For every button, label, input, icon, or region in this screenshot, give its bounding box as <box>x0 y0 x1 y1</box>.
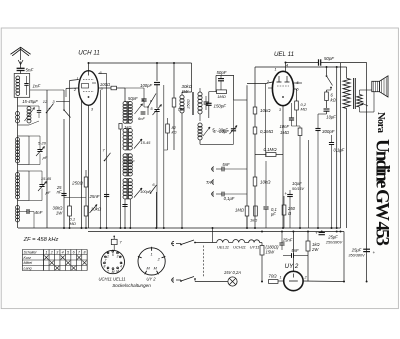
svg-text:UY11: UY11 <box>250 245 260 250</box>
svg-text:M: M <box>116 269 119 273</box>
svg-text:+: + <box>373 250 376 255</box>
svg-text:5 - 20μF: 5 - 20μF <box>213 129 229 134</box>
svg-text:3: 3 <box>117 254 119 258</box>
svg-text:3: 3 <box>56 251 58 255</box>
svg-text:1MΩ: 1MΩ <box>280 130 290 135</box>
svg-text:MΩ: MΩ <box>70 221 76 226</box>
svg-text:2: 2 <box>106 269 109 273</box>
svg-text:100Ω: 100Ω <box>100 82 111 87</box>
svg-text:1MΩ: 1MΩ <box>217 94 226 99</box>
svg-text:TA: TA <box>206 180 212 185</box>
svg-text:5-20: 5-20 <box>38 141 47 146</box>
svg-text:5: 5 <box>112 253 114 257</box>
svg-text:+: + <box>284 191 287 196</box>
svg-text:pF: pF <box>45 190 51 195</box>
svg-text:1: 1 <box>107 254 109 258</box>
svg-text:UY 2: UY 2 <box>146 277 156 282</box>
svg-text:MΩ: MΩ <box>301 107 307 112</box>
svg-text:1W: 1W <box>56 211 63 216</box>
svg-text:Mittel: Mittel <box>24 261 33 265</box>
svg-text:kΩ: kΩ <box>331 98 337 103</box>
svg-text:1nF: 1nF <box>33 83 41 88</box>
svg-text:kΩ: kΩ <box>172 130 177 135</box>
svg-text:Nora: Nora <box>375 112 386 134</box>
svg-text:70Ω: 70Ω <box>268 274 277 279</box>
svg-text:50pF: 50pF <box>216 70 226 75</box>
svg-text:25μF: 25μF <box>327 235 338 240</box>
svg-text:10nF: 10nF <box>279 124 289 129</box>
svg-text:100pF: 100pF <box>123 159 135 164</box>
svg-text:4: 4 <box>120 264 122 268</box>
svg-text:5nF: 5nF <box>291 248 299 253</box>
svg-text:15W: 15W <box>266 250 276 255</box>
svg-text:25nF: 25nF <box>282 238 293 243</box>
svg-text:300pF: 300pF <box>322 129 335 134</box>
svg-text:7: 7 <box>105 258 107 262</box>
svg-text:Sockelschaltungen: Sockelschaltungen <box>112 283 151 288</box>
svg-text:M: M <box>112 270 115 274</box>
svg-text:15-45: 15-45 <box>41 176 52 181</box>
svg-text:Lang: Lang <box>24 266 32 270</box>
svg-text:ZF = 458 kHz: ZF = 458 kHz <box>23 237 59 243</box>
svg-text:2W: 2W <box>311 247 319 252</box>
svg-text:4: 4 <box>62 251 64 255</box>
svg-text:10μF: 10μF <box>292 181 302 186</box>
svg-text:5nF: 5nF <box>222 162 230 167</box>
svg-text:UEL 11: UEL 11 <box>274 51 294 58</box>
svg-text:1: 1 <box>45 251 47 255</box>
svg-text:0,1μF: 0,1μF <box>334 148 345 153</box>
svg-text:15-45μF: 15-45μF <box>22 99 38 104</box>
svg-text:6: 6 <box>73 251 75 255</box>
svg-text:10kΩ: 10kΩ <box>260 180 271 185</box>
svg-text:Undine GW 453: Undine GW 453 <box>372 139 393 246</box>
svg-text:1kΩ: 1kΩ <box>250 218 257 223</box>
svg-text:25nF: 25nF <box>88 194 99 199</box>
svg-text:0,1μF: 0,1μF <box>224 196 235 201</box>
svg-text:8: 8 <box>83 251 85 255</box>
svg-text:UCH11: UCH11 <box>233 245 246 250</box>
svg-text:25μF: 25μF <box>351 248 362 253</box>
svg-text:15-45: 15-45 <box>141 141 152 145</box>
svg-text:15V 0,2A: 15V 0,2A <box>224 270 241 275</box>
svg-text:UEL11: UEL11 <box>217 245 229 250</box>
svg-text:8: 8 <box>104 264 106 268</box>
svg-text:μF: μF <box>270 212 276 217</box>
svg-text:250Ω: 250Ω <box>187 99 191 109</box>
svg-text:UCH11 UEL11: UCH11 UEL11 <box>98 277 125 282</box>
svg-text:50pF: 50pF <box>128 96 138 101</box>
svg-text:100pF: 100pF <box>140 83 152 88</box>
svg-text:1MΩ: 1MΩ <box>235 208 245 213</box>
svg-text:+: + <box>315 231 318 236</box>
svg-text:0,2MΩ: 0,2MΩ <box>260 129 274 134</box>
svg-text:10μF: 10μF <box>326 115 336 120</box>
svg-text:1kΩ: 1kΩ <box>124 124 131 129</box>
svg-text:6nF: 6nF <box>138 116 145 121</box>
svg-text:50/15V: 50/15V <box>292 187 305 191</box>
svg-text:350/380V: 350/380V <box>348 254 365 258</box>
svg-text:1: 1 <box>279 276 281 280</box>
svg-text:UY 2: UY 2 <box>285 263 299 270</box>
svg-text:150pF: 150pF <box>214 104 227 109</box>
svg-text:1: 1 <box>76 76 78 81</box>
svg-text:1: 1 <box>151 252 153 256</box>
svg-text:4nF: 4nF <box>35 210 44 215</box>
svg-text:5nF: 5nF <box>26 67 34 72</box>
svg-text:1W: 1W <box>182 89 189 94</box>
svg-text:2: 2 <box>50 251 53 255</box>
svg-text:5: 5 <box>67 251 69 255</box>
svg-text:UCH 11: UCH 11 <box>78 50 100 57</box>
svg-text:Kurz: Kurz <box>24 256 32 260</box>
svg-text:250/380V: 250/380V <box>325 241 343 245</box>
svg-text:nF: nF <box>57 190 62 195</box>
svg-text:50pF: 50pF <box>324 56 334 61</box>
svg-text:Schalter: Schalter <box>24 251 38 255</box>
